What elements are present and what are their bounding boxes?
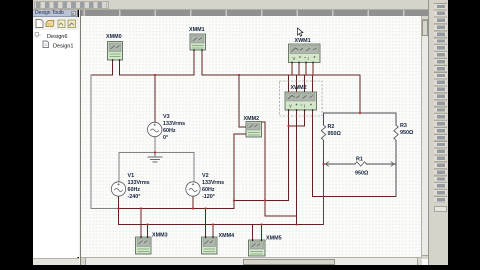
wire XWM2 pin4 xyxy=(313,110,397,197)
svg-text:R3: R3 xyxy=(400,123,407,129)
wire R2 column xyxy=(323,113,325,225)
wire top bus mid segment xyxy=(120,74,195,76)
wire mid link xyxy=(234,200,289,202)
svg-text:133Vrms: 133Vrms xyxy=(163,121,185,127)
wire V1 down xyxy=(118,197,120,209)
svg-text:XMM1: XMM1 xyxy=(189,27,205,33)
svg-text:V: V xyxy=(289,104,292,109)
wire top bus right segment xyxy=(202,74,360,76)
svg-text:950Ω: 950Ω xyxy=(355,171,369,177)
wire top bus left segment xyxy=(91,74,113,76)
right instruments toolbar xyxy=(428,0,448,265)
svg-text:V2: V2 xyxy=(202,173,209,179)
pin nubs xyxy=(112,49,314,241)
wire XMM0 pin stubs xyxy=(113,60,120,75)
svg-text:XMM5: XMM5 xyxy=(266,236,282,242)
svg-text:I: I xyxy=(308,56,309,61)
wire feed down to R rail xyxy=(359,75,361,113)
multimeter XMM4 xyxy=(202,237,218,254)
wire V3 top xyxy=(154,75,156,122)
svg-text:-240°: -240° xyxy=(128,194,141,200)
wire XMM2 right link xyxy=(262,122,297,216)
svg-text:V1: V1 xyxy=(128,173,135,179)
multimeter XMM3 xyxy=(136,237,152,254)
wire node A drop xyxy=(239,75,246,127)
wire R top rail xyxy=(324,112,397,114)
wire rail to bus drop xyxy=(118,209,120,225)
svg-text:60Hz: 60Hz xyxy=(163,128,176,134)
wire XWM2 pin1 xyxy=(288,110,290,201)
wire R1 row xyxy=(324,163,397,165)
wire XMM1 pin stubs xyxy=(194,50,202,75)
wattmeter XWM1 xyxy=(289,44,321,63)
svg-text:XWM1: XWM1 xyxy=(295,38,311,44)
svg-text:XMM3: XMM3 xyxy=(152,233,168,239)
svg-text:XMM2: XMM2 xyxy=(244,116,260,122)
wire bottom bus xyxy=(119,224,324,226)
svg-text:V3: V3 xyxy=(163,114,170,120)
canvas window xyxy=(80,10,428,265)
svg-text:133Vrms: 133Vrms xyxy=(128,180,150,186)
svg-text:Design6: Design6 xyxy=(47,34,68,40)
resistor R3 xyxy=(394,125,398,140)
svg-text:XMM4: XMM4 xyxy=(219,233,235,239)
source V3 xyxy=(148,122,162,136)
wire bottom rail xyxy=(119,208,235,210)
wire R3 column xyxy=(395,113,397,197)
R1 end arrows xyxy=(326,162,395,166)
wire left return to node xyxy=(91,208,119,210)
svg-text:60Hz: 60Hz xyxy=(202,187,215,193)
wire XMM3 pins xyxy=(141,209,148,238)
svg-text:950Ω: 950Ω xyxy=(400,130,414,136)
svg-text:0°: 0° xyxy=(163,135,168,141)
svg-text:I: I xyxy=(304,104,305,109)
wire bus to XWM2 top xyxy=(289,75,313,92)
wire left return vertical xyxy=(90,75,92,209)
source V2 xyxy=(186,182,200,196)
wire neutral loop xyxy=(119,153,194,182)
svg-text:R2: R2 xyxy=(328,124,335,130)
wire XWM1 pins to bus xyxy=(292,63,313,76)
wire XWM2 pin2 xyxy=(296,110,298,225)
multimeter XMM1 xyxy=(190,34,206,50)
wire V3 bottom xyxy=(154,137,156,153)
multimeter XMM5 xyxy=(249,240,266,256)
svg-text:60Hz: 60Hz xyxy=(128,187,141,193)
circuit svg overlay xyxy=(80,10,421,259)
wire XWM2 pin3 xyxy=(289,110,305,126)
svg-text:XWM2: XWM2 xyxy=(291,85,307,91)
wire XMM4 pins xyxy=(206,209,214,238)
svg-text:Design1: Design1 xyxy=(53,44,74,50)
wire XMM2 lower pin xyxy=(234,134,246,209)
svg-text:950Ω: 950Ω xyxy=(328,131,342,137)
source V1 xyxy=(111,182,125,196)
multimeter XMM0 xyxy=(108,42,123,61)
svg-text:R1: R1 xyxy=(356,157,363,163)
wire XMM5 pins xyxy=(253,225,262,241)
ground xyxy=(148,153,162,163)
wattmeter XWM2 xyxy=(280,81,323,116)
wire V2 down xyxy=(192,197,194,209)
multimeter XMM2 xyxy=(246,122,262,138)
svg-text:-120°: -120° xyxy=(202,194,215,200)
svg-text:133Vrms: 133Vrms xyxy=(202,180,224,186)
svg-text:V: V xyxy=(293,56,296,61)
resistor R1 xyxy=(355,162,366,166)
top toolbar xyxy=(33,0,448,10)
svg-text:XMM0: XMM0 xyxy=(106,34,122,40)
design toolbox panel xyxy=(33,10,78,265)
mouse cursor xyxy=(298,28,304,36)
resistor R2 xyxy=(321,125,325,140)
